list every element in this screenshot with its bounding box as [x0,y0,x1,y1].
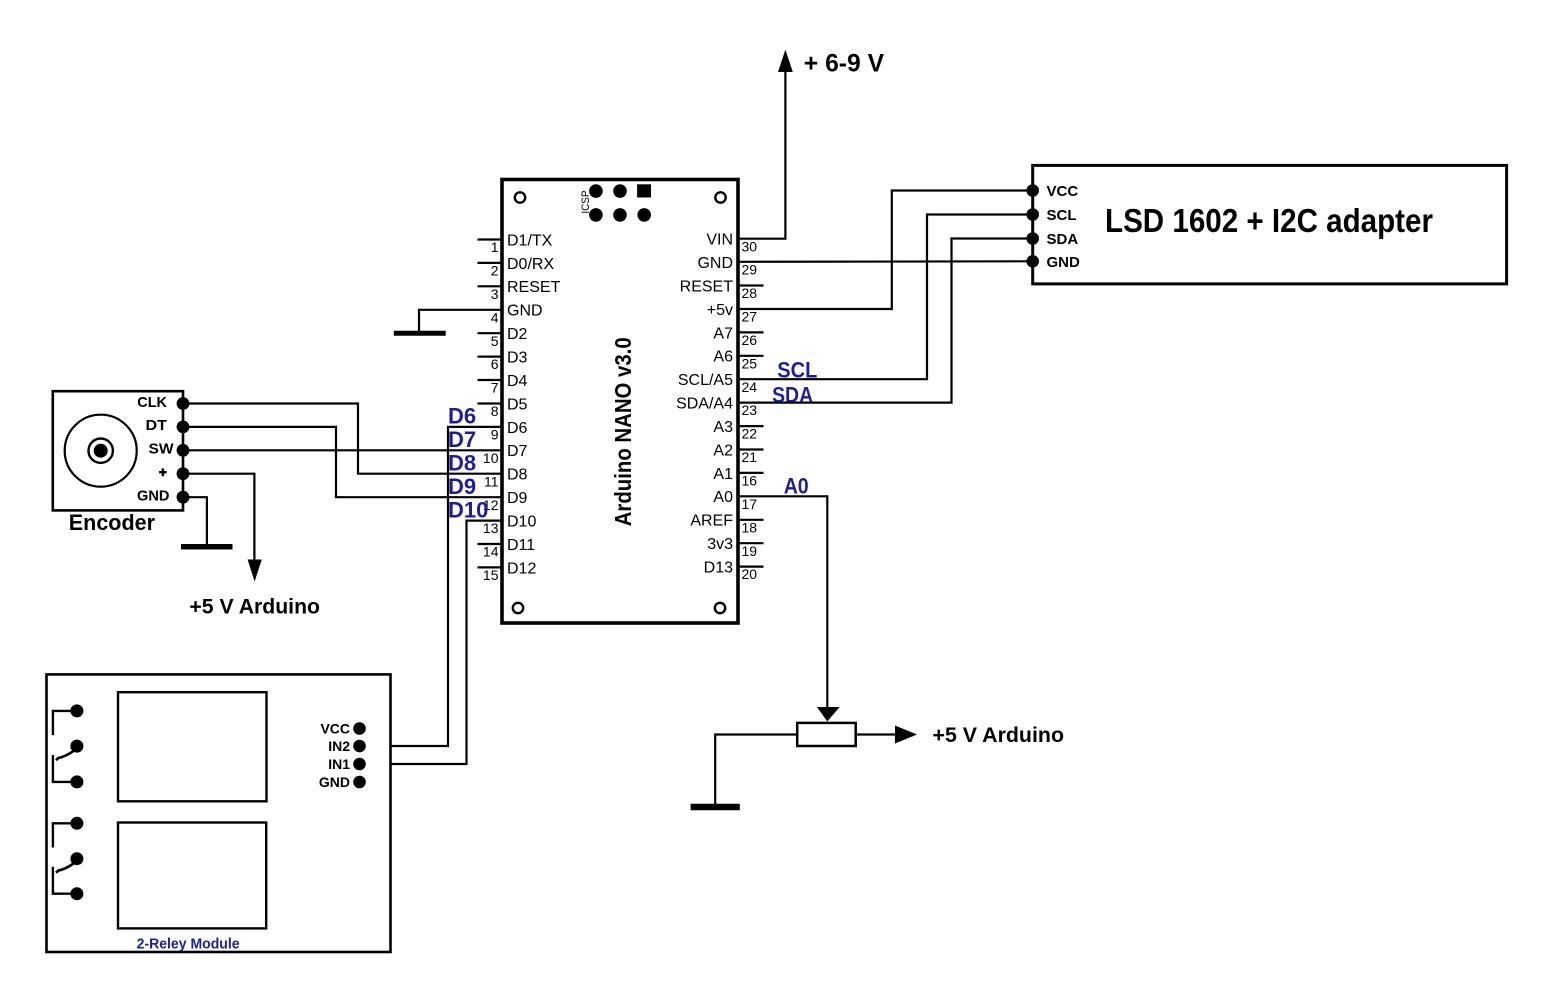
pin 4 GND (left) [491,303,543,326]
encoder pin DT [146,417,190,434]
svg-text:GND: GND [1047,254,1081,271]
relay module pin IN2 [328,738,366,754]
2-relay module body [47,674,391,952]
pin 30 VIN (right) [706,232,757,255]
pin 29 GND (right) [697,255,757,278]
pin 3 RESET (left) [478,279,561,302]
svg-text:26: 26 [742,332,758,348]
svg-text:13: 13 [483,520,499,536]
+6-9V arrow head [778,50,793,72]
arrow head onto potentiometer [817,707,840,721]
svg-text:D10: D10 [448,497,488,522]
relay module pin VCC [320,721,365,737]
svg-text:CLK: CLK [137,394,167,411]
+5V arrow head (down) [248,560,262,582]
svg-text:D7: D7 [448,427,476,452]
svg-text:6: 6 [491,356,499,372]
svg-text:A6: A6 [713,349,733,366]
pin 18 AREF (right) [690,513,763,536]
wire encoder SW to D7 pin10 [183,449,501,451]
svg-text:D1/TX: D1/TX [507,232,553,249]
pin 27 +5v (right) [707,302,758,325]
wire LSD SCL to SCL/A5 pin24 [738,215,1033,380]
svg-text:D10: D10 [507,514,536,531]
svg-text:22: 22 [742,426,758,442]
relay K2 body [118,823,266,929]
svg-text:25: 25 [742,355,758,371]
svg-text:27: 27 [742,309,758,325]
relay module pin GND [319,774,366,790]
pin 20 D13 (right) [704,560,764,583]
svg-text:D6: D6 [448,404,476,429]
svg-text:+5 V Arduino: +5 V Arduino [933,724,1065,747]
svg-text:D9: D9 [507,490,528,507]
svg-text:7: 7 [491,380,499,396]
Encoder body [53,391,183,510]
svg-text:RESET: RESET [507,279,561,296]
svg-text:+ 6-9 V: + 6-9 V [804,49,885,77]
svg-text:19: 19 [742,543,758,559]
ground symbol (Arduino GND) [394,331,446,336]
svg-text:+5v: +5v [707,302,733,319]
svg-text:D3: D3 [507,350,528,367]
wire relay IN2 to D6 pin9 [360,427,502,746]
wire A0 pin17 to potentiometer wiper [738,496,827,707]
LSD pin SDA [1026,231,1078,248]
svg-text:VCC: VCC [320,721,350,737]
wire relay IN1 to D10 pin13 [360,521,502,764]
pin 13 D10 (left) [483,514,537,537]
pin 15 D12 (left) [478,560,537,583]
LSD pin SCL [1026,207,1076,224]
pin 9 D6 (left) [491,420,528,443]
wire encoder + to +5V arrow [183,474,254,561]
svg-text:4: 4 [491,309,499,325]
svg-text:20: 20 [742,566,758,582]
encoder pin CLK [137,394,189,411]
svg-text:A3: A3 [713,419,733,436]
pin 19 3v3 (right) [707,536,763,559]
svg-text:9: 9 [491,427,499,443]
svg-text:11: 11 [484,473,499,489]
pin 11 D8 (left) [484,467,528,490]
svg-text:SDA: SDA [1047,231,1079,248]
wire encoder CLK to D8 pin11 [183,404,501,474]
relay K2 NC contact [53,817,84,848]
svg-text:1: 1 [491,239,499,255]
ICSP header pads [589,184,651,221]
relay module pin IN1 [328,756,366,772]
svg-text:Encoder: Encoder [69,510,156,535]
wire LSD SDA to SDA/A4 pin23 [738,239,1033,403]
svg-text:18: 18 [742,519,758,535]
pin 10 D7 (left) [483,443,528,466]
Arduino NANO module body U1 [502,180,738,624]
svg-text:VCC: VCC [1047,183,1079,200]
relay K2 NO contact [53,867,84,901]
svg-text:SDA/A4: SDA/A4 [676,396,733,413]
svg-text:A0: A0 [713,489,733,506]
LSD pin GND [1026,254,1080,271]
svg-text:SCL: SCL [1047,207,1077,224]
pin 5 D2 (left) [478,326,528,349]
svg-text:10: 10 [483,450,499,466]
svg-text:D0/RX: D0/RX [507,256,554,273]
relay K1 body [118,692,267,801]
svg-text:DT: DT [146,417,168,434]
pin 12 D9 (left) [483,490,528,513]
svg-text:D6: D6 [507,420,528,437]
svg-text:15: 15 [483,567,499,583]
svg-text:3v3: 3v3 [707,536,733,553]
pin 22 A3 (right) [713,419,763,442]
pin 16 A1 (right) [713,466,763,489]
pin 21 A2 (right) [713,442,763,465]
wire encoder GND to ground [183,497,207,544]
wire VIN to +6-9V supply [738,71,785,239]
svg-text:SCL/A5: SCL/A5 [678,372,733,389]
relay K1 common contact with lever [56,740,83,761]
relay K1 NO contact [53,755,84,789]
pin 8 D5 (left) [478,396,528,419]
pin 24 SCL/A5 (right) [678,372,757,395]
svg-text:RESET: RESET [680,278,734,295]
svg-text:D2: D2 [507,326,528,343]
encoder shaft outer circle [65,415,137,487]
svg-text:Arduino NANO v3.0: Arduino NANO v3.0 [610,337,636,526]
mounting hole bottom-right [715,603,725,613]
encoder shaft inner ring [89,439,113,463]
encoder pin + [159,467,189,480]
pin 17 A0 (right) [713,489,757,512]
wire encoder DT to D9 pin12 [183,427,501,497]
svg-text:5: 5 [491,333,499,349]
svg-text:GND: GND [507,303,543,320]
pin 6 D3 (left) [478,350,528,373]
svg-text:SW: SW [149,441,175,458]
svg-text:D7: D7 [507,443,528,460]
wire LSD VCC to +5v pin27 [738,191,1033,310]
svg-text:IN1: IN1 [328,756,350,772]
pin 26 A7 (right) [713,325,763,348]
encoder shaft center dot [94,444,108,458]
svg-text:A1: A1 [713,466,733,483]
svg-text:+5 V Arduino: +5 V Arduino [189,596,320,619]
svg-text:LSD 1602 + I2C adapter: LSD 1602 + I2C adapter [1105,202,1433,239]
svg-text:29: 29 [742,262,758,278]
svg-text:D12: D12 [507,560,536,577]
pin 7 D4 (left) [478,373,528,396]
svg-text:24: 24 [742,379,758,395]
ground symbol (potentiometer) [691,804,740,811]
svg-text:D13: D13 [704,560,733,577]
mounting hole top-right [715,192,725,202]
potentiometer R1 body [797,723,856,746]
svg-text:3: 3 [491,286,499,302]
svg-text:D4: D4 [507,373,528,390]
svg-text:2: 2 [491,263,499,279]
svg-text:A0: A0 [784,474,809,499]
svg-text:28: 28 [742,285,758,301]
ground symbol (encoder) [181,544,233,550]
pin 25 A6 (right) [713,349,763,372]
svg-text:GND: GND [697,255,733,272]
svg-text:D5: D5 [507,396,528,413]
pin 23 SDA/A4 (right) [676,396,757,419]
svg-text:14: 14 [483,544,499,560]
svg-text:D8: D8 [448,451,476,476]
svg-text:IN2: IN2 [328,738,350,754]
pin 14 D11 (left) [478,537,536,560]
svg-text:16: 16 [742,473,758,489]
wire LSD GND to GND pin29 [738,260,1033,263]
svg-text:21: 21 [742,449,758,465]
pin 1 D1/TX (left) [478,232,553,255]
svg-text:2-Reley Module: 2-Reley Module [137,936,240,953]
encoder pin SW [149,441,190,458]
LSD pin VCC [1026,183,1078,200]
wire potentiometer left to ground [715,735,797,805]
relay K1 NC contact [53,704,84,735]
LCD module body: LSD 1602 + I2C adapter [1033,165,1507,284]
encoder pin GND [137,488,189,505]
svg-text:A7: A7 [713,325,733,342]
svg-text:A2: A2 [713,442,733,459]
svg-text:D11: D11 [507,537,535,554]
svg-text:VIN: VIN [706,232,733,249]
+5V arrow head (right) [895,726,917,744]
svg-text:GND: GND [319,774,350,790]
svg-text:8: 8 [491,403,499,419]
svg-text:23: 23 [742,402,758,418]
wire GND pin4 to ground [419,310,501,331]
svg-text:17: 17 [742,496,758,512]
relay K2 common contact with lever [56,852,83,873]
mounting hole bottom-left [513,603,523,613]
pin 2 D0/RX (left) [478,256,555,279]
svg-text:AREF: AREF [690,513,733,530]
svg-text:GND: GND [137,488,170,505]
wire potentiometer right to +5V [856,733,896,735]
svg-text:D8: D8 [507,467,528,484]
svg-text:D9: D9 [448,474,476,499]
mounting hole top-left [515,192,525,202]
pin 28 RESET (right) [680,278,764,301]
svg-text:30: 30 [742,238,758,254]
